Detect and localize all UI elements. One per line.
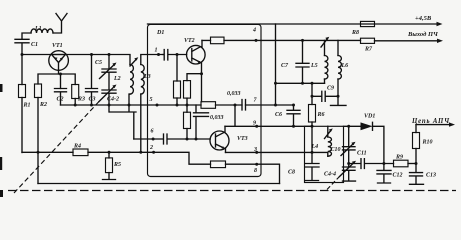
svg-text:L2: L2 bbox=[113, 76, 121, 82]
svg-text:R8: R8 bbox=[351, 30, 359, 36]
svg-text:VD1: VD1 bbox=[364, 114, 375, 120]
svg-text:L1: L1 bbox=[34, 26, 42, 32]
svg-text:C5: C5 bbox=[95, 60, 102, 66]
svg-text:C6: C6 bbox=[275, 112, 282, 118]
svg-text:C12: C12 bbox=[393, 173, 403, 179]
svg-text:1: 1 bbox=[155, 48, 158, 54]
svg-text:0,033: 0,033 bbox=[227, 91, 241, 97]
svg-text:R9: R9 bbox=[395, 155, 403, 161]
svg-text:C2: C2 bbox=[57, 97, 64, 103]
svg-text:6: 6 bbox=[151, 129, 154, 135]
svg-text:C9: C9 bbox=[327, 86, 334, 92]
svg-text:C11: C11 bbox=[357, 151, 367, 157]
svg-text:C10: C10 bbox=[331, 147, 341, 153]
svg-text:2: 2 bbox=[149, 145, 153, 151]
svg-text:L6: L6 bbox=[341, 63, 349, 69]
svg-text:R5: R5 bbox=[113, 162, 121, 168]
svg-text:Цепь АПЧ: Цепь АПЧ bbox=[411, 118, 450, 125]
svg-text:L4: L4 bbox=[311, 144, 319, 150]
svg-text:Выход ПЧ: Выход ПЧ bbox=[407, 31, 439, 38]
svg-text:C13: C13 bbox=[426, 173, 436, 179]
svg-text:R1: R1 bbox=[23, 103, 31, 109]
svg-text:L3: L3 bbox=[143, 74, 151, 80]
svg-text:3: 3 bbox=[253, 147, 257, 153]
svg-text:R4: R4 bbox=[73, 144, 81, 150]
svg-text:C1: C1 bbox=[31, 42, 38, 48]
svg-text:8: 8 bbox=[254, 168, 257, 174]
svg-text:0,033: 0,033 bbox=[210, 115, 224, 121]
svg-text:R10: R10 bbox=[422, 140, 433, 146]
svg-text:C3: C3 bbox=[89, 97, 96, 103]
svg-text:R6: R6 bbox=[317, 112, 325, 118]
svg-text:R7: R7 bbox=[364, 47, 373, 53]
svg-text:C8: C8 bbox=[288, 170, 295, 176]
svg-text:9: 9 bbox=[253, 121, 256, 127]
svg-text:D1: D1 bbox=[156, 30, 164, 36]
svg-text:R3: R3 bbox=[77, 97, 85, 103]
svg-text:VT2: VT2 bbox=[184, 38, 195, 44]
svg-text:5: 5 bbox=[150, 97, 153, 103]
svg-text:VT1: VT1 bbox=[52, 43, 63, 49]
svg-text:C7: C7 bbox=[281, 63, 289, 69]
svg-text:VT3: VT3 bbox=[237, 136, 248, 142]
svg-text:R2: R2 bbox=[39, 102, 47, 108]
svg-text:+4,5В: +4,5В bbox=[415, 15, 432, 22]
svg-text:C4-4: C4-4 bbox=[324, 172, 336, 178]
svg-text:4: 4 bbox=[252, 28, 256, 34]
svg-text:C4-2: C4-2 bbox=[107, 97, 119, 103]
svg-text:L5: L5 bbox=[310, 63, 318, 69]
